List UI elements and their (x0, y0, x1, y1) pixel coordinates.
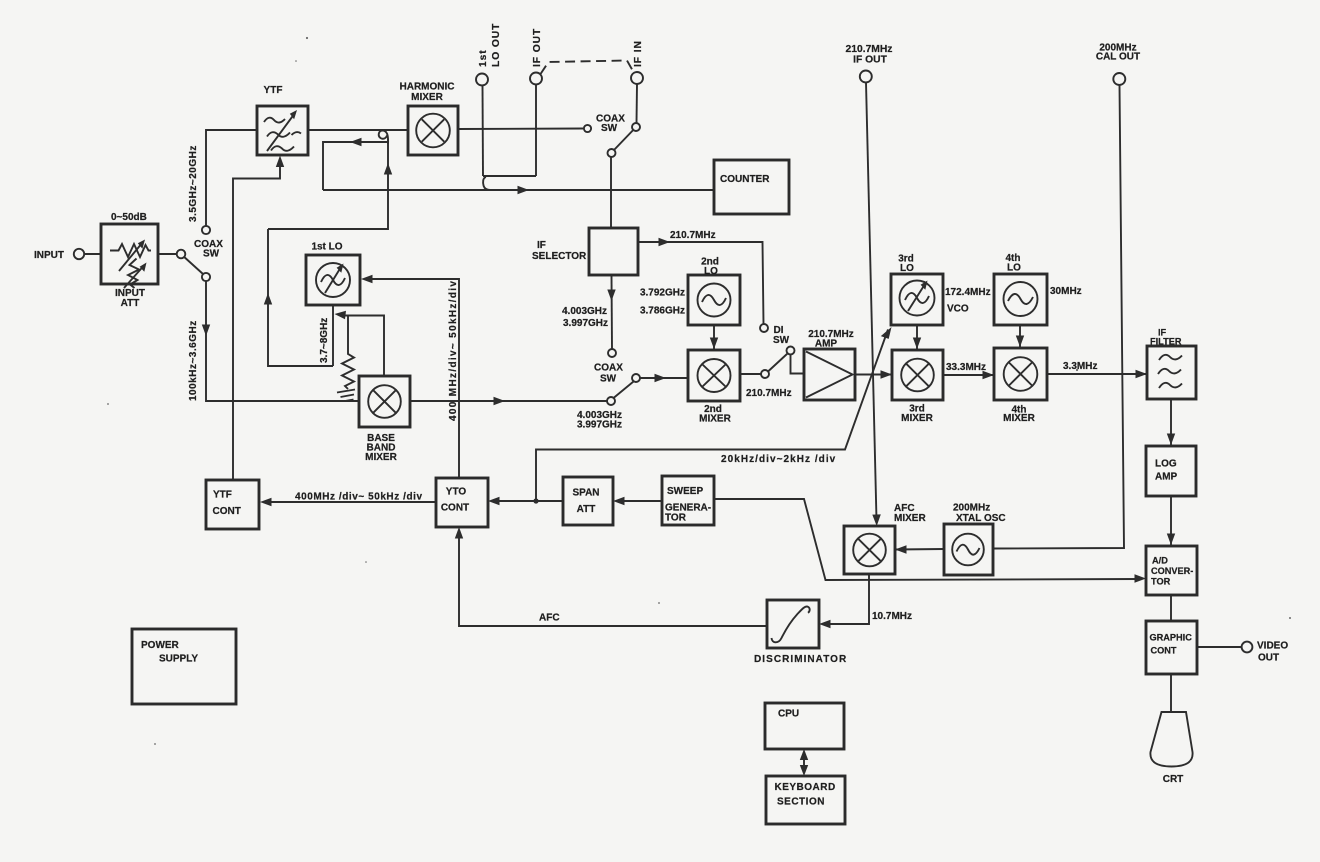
node DI SW arm circle (787, 347, 795, 355)
wire span att to YTO CONT (494, 500, 563, 502)
wire xtal osc to AFC mixer (895, 548, 944, 551)
svg-text:SW: SW (773, 335, 790, 346)
svg-text:CAL OUT: CAL OUT (1096, 52, 1140, 63)
wire input terminal to input att (85, 253, 102, 255)
block A/D CONVERTOR (1146, 546, 1197, 595)
svg-text:KEYBOARD: KEYBOARD (775, 782, 836, 793)
wire YTO CONT to YTF CONT (266, 501, 436, 503)
block LOG AMP (1146, 446, 1196, 496)
wire sweep generator right to A/D line (714, 499, 1140, 580)
svg-text:GRAPHIC: GRAPHIC (1150, 633, 1193, 643)
svg-text:3.786GHz: 3.786GHz (640, 306, 685, 317)
svg-text:SW: SW (203, 249, 220, 260)
svg-text:AMP: AMP (1155, 472, 1178, 483)
scan specks (noise) (107, 37, 1291, 745)
block YTO CONT (436, 478, 488, 527)
wire input att to coax switch (158, 253, 177, 255)
svg-text:10.7MHz: 10.7MHz (872, 611, 912, 622)
mixer 3rd MIXER (892, 350, 943, 400)
svg-text:210.7MHz: 210.7MHz (846, 44, 893, 55)
svg-text:ATT: ATT (577, 504, 596, 515)
arrow up on x268 leg (264, 293, 272, 305)
arrow 3rd LO into mixer (913, 338, 921, 350)
mixer BASE BAND MIXER (359, 376, 410, 427)
arrow right on baseband output (494, 397, 506, 405)
oscillator 200MHz XTAL OSC (944, 524, 993, 575)
arrow up into YTO CONT bottom (455, 527, 463, 539)
svg-text:LOG: LOG (1155, 459, 1177, 470)
wire 200MHz cal out lead (993, 85, 1124, 549)
oscillator 1st LO (306, 255, 360, 305)
node 200MHz CAL OUT terminal (1113, 73, 1125, 85)
node mid COAX SW upper circle (608, 349, 616, 357)
wire AFC mixer down to discriminator (825, 574, 869, 624)
svg-text:POWER: POWER (141, 640, 180, 651)
svg-text:MIXER: MIXER (901, 413, 933, 424)
node 1st LO OUT terminal (476, 74, 488, 86)
resistor termination on tap (342, 316, 354, 390)
oscillator 3rd LO VCO (891, 274, 943, 325)
svg-text:FILTER: FILTER (1150, 337, 1182, 347)
svg-text:SWEEP: SWEEP (667, 486, 703, 497)
svg-text:SUPPLY: SUPPLY (159, 654, 198, 665)
svg-text:100kHz~3.6GHz: 100kHz~3.6GHz (188, 320, 199, 401)
svg-text:SECTION: SECTION (777, 797, 825, 808)
node COAX SW right circle (632, 123, 640, 131)
svg-text:TOR: TOR (1151, 577, 1171, 587)
node COAX SW stub circle (top middle) (584, 125, 591, 132)
svg-text:LO: LO (900, 263, 914, 274)
wire 1st LO OUT terminal lead down (482, 86, 485, 177)
node VIDEO OUT terminal (1242, 642, 1253, 653)
mixer HARMONIC MIXER (408, 106, 458, 155)
svg-text:CONT: CONT (1151, 646, 1177, 656)
wire YTO tune line into 1st LO (367, 279, 459, 478)
svg-text:200MHz: 200MHz (953, 503, 990, 514)
arrow left into 1st LO right edge (361, 275, 373, 283)
arrow 4th LO into mixer (1016, 336, 1024, 348)
arrow into A/D left (1135, 574, 1147, 582)
svg-text:A/D: A/D (1152, 556, 1168, 566)
wire 100kHz~3.6GHz path down from lower throw to baseband line (206, 281, 359, 401)
svg-text:172.4MHz: 172.4MHz (945, 287, 991, 298)
wire IF IN terminal down to coax sw (636, 84, 639, 123)
node IF IN terminal (631, 72, 643, 84)
arrow into YTF CONT (260, 498, 272, 506)
wire vertical riser x388 from curl to y229 (268, 139, 388, 229)
svg-text:3.3MHz: 3.3MHz (1063, 361, 1097, 372)
svg-text:MIXER: MIXER (411, 92, 443, 103)
mixer AFC MIXER (844, 526, 895, 574)
input attenuator INPUT ATT (101, 224, 158, 288)
svg-text:IF: IF (537, 240, 546, 251)
wire mid switch to 2nd mixer (640, 377, 688, 379)
svg-text:30MHz: 30MHz (1050, 286, 1082, 297)
oscillator 4th LO (994, 274, 1047, 325)
wire 4th LO to 4th mixer (1019, 325, 1021, 348)
block KEYBOARD SECTION (766, 776, 845, 824)
svg-text:YTF: YTF (213, 490, 232, 501)
mixer 2nd MIXER (688, 350, 740, 401)
wire mid switch arm (614, 382, 634, 399)
node mid COAX SW lower circle (607, 397, 615, 405)
wire DI SW arm (768, 354, 788, 372)
svg-text:OUT: OUT (1258, 653, 1279, 664)
arrow 2nd LO into mixer (710, 338, 718, 350)
svg-text:MIXER: MIXER (365, 452, 397, 463)
wire discriminator AFC return to YTO CONT (459, 533, 767, 626)
arrow right on counter line (518, 186, 530, 194)
wire graphic cont to video out (1197, 646, 1242, 648)
arrow into 2nd mixer (655, 374, 667, 382)
svg-text:3.5GHz~20GHz: 3.5GHz~20GHz (188, 145, 199, 222)
svg-text:CONT: CONT (213, 506, 241, 517)
svg-text:CONVER-: CONVER- (1151, 566, 1193, 576)
arrow into 3rd LO corner (881, 327, 892, 339)
svg-text:SW: SW (600, 374, 617, 385)
svg-text:400MHz /div~ 50kHz /div: 400MHz /div~ 50kHz /div (295, 492, 422, 503)
junction dot on span att line (533, 498, 538, 503)
svg-text:20kHz/div~2kHz /div: 20kHz/div~2kHz /div (721, 454, 836, 465)
arrow into discriminator right (819, 620, 831, 628)
node IF selector throw circle (608, 149, 616, 157)
svg-text:YTO: YTO (446, 487, 467, 498)
node IF OUT terminal (530, 73, 542, 85)
filter YTF (257, 106, 308, 155)
arrow right on 210.7MHz line (659, 238, 671, 246)
wire coax switch arm to lower throw (184, 257, 203, 274)
discriminator block (767, 600, 819, 648)
wire YTF tune line from YTF CONT (233, 160, 280, 480)
arrow into log amp (1167, 434, 1175, 446)
wire switch arm coax sw to IF selector throw (614, 130, 633, 150)
arrow into IF filter (1136, 370, 1148, 378)
wire 2nd LO to 2nd mixer (713, 325, 715, 350)
svg-text:COAX: COAX (594, 363, 623, 374)
block SPAN ATT (563, 477, 613, 525)
arrow up into CPU (800, 749, 808, 760)
wire A/D to graphic cont (1170, 595, 1172, 621)
block POWER SUPPLY (132, 629, 236, 704)
node INPUT terminal (74, 249, 84, 259)
svg-text:LO: LO (704, 266, 718, 277)
svg-text:3.997GHz: 3.997GHz (563, 318, 608, 329)
node DI SW upper circle (760, 324, 768, 332)
svg-text:3.7~8GHz: 3.7~8GHz (319, 318, 330, 363)
svg-text:CPU: CPU (778, 709, 799, 720)
arrow up on riser x388 (384, 163, 392, 175)
wire amp output to 3rd mixer (855, 374, 892, 376)
wire log amp to A/D convertor (1170, 496, 1172, 546)
arrow down into AFC mixer top (872, 514, 881, 526)
svg-text:VCO: VCO (947, 304, 969, 315)
wire harmonic mixer output to coax sw stub (458, 128, 583, 131)
wire IF selector down output (611, 275, 614, 349)
svg-text:INPUT: INPUT (34, 250, 64, 261)
wire CPU keyboard double arrow (803, 753, 805, 772)
wire sweep diagonal to 3rd LO vco (536, 330, 888, 502)
wire DI SW arm down and into amp (791, 355, 805, 374)
wire sweep generator to span att (619, 500, 662, 502)
curl where riser meets harmonic mixer line (379, 131, 388, 145)
arrow into AFC mixer right (895, 545, 907, 553)
arrow down on IF selector output (607, 290, 615, 302)
svg-text:DISCRIMINATOR: DISCRIMINATOR (754, 654, 847, 665)
wire 3rd LO to 3rd mixer (916, 325, 918, 350)
mixer 4th MIXER (994, 348, 1047, 400)
wire YTF output to harmonic mixer (308, 129, 408, 131)
svg-text:MIXER: MIXER (894, 513, 926, 524)
svg-text:0~50dB: 0~50dB (111, 212, 147, 223)
svg-text:210.7MHz: 210.7MHz (746, 388, 792, 399)
svg-text:SW: SW (601, 123, 618, 134)
svg-text:AFC: AFC (539, 613, 560, 624)
block IF SELECTOR (589, 228, 638, 275)
arrow up into YTF bottom (276, 156, 284, 168)
oscillator 2nd LO (688, 275, 740, 325)
block SWEEP GENERATOR (662, 476, 714, 525)
svg-text:XTAL OSC: XTAL OSC (956, 513, 1006, 524)
svg-text:CONT: CONT (441, 503, 469, 514)
arrow left on loop top (350, 138, 362, 146)
svg-text:ATT: ATT (121, 298, 140, 309)
wire vertical x268 feedback leg (268, 229, 333, 366)
wire 3rd mixer to 4th mixer (943, 374, 994, 376)
svg-text:IF OUT: IF OUT (853, 55, 887, 66)
wire 2nd mixer output to DI SW common (740, 373, 761, 375)
svg-text:33.3MHz: 33.3MHz (946, 362, 986, 373)
wire IF selector 210.7MHz output to DI SW (638, 242, 764, 324)
wire dashed patch link IF OUT to IF IN (541, 61, 634, 75)
arrow into 4th mixer (983, 371, 995, 379)
wire down from throw to IF selector box (610, 157, 612, 228)
node COAX SW lower throw (202, 273, 210, 281)
svg-text:TOR: TOR (665, 513, 687, 524)
filter IF FILTER (1147, 346, 1196, 399)
node COAX SW common (after input att) (177, 250, 186, 259)
svg-text:3.792GHz: 3.792GHz (640, 288, 685, 299)
node 210.7MHz IF OUT terminal (860, 71, 872, 83)
svg-text:IF IN: IF IN (633, 40, 644, 67)
wire upper throw up and right to YTF input (206, 130, 257, 226)
arrow into 3rd mixer (881, 370, 893, 378)
svg-text:COUNTER: COUNTER (720, 174, 770, 185)
block YTF CONT (206, 480, 259, 529)
CRT funnel (1150, 712, 1192, 767)
svg-text:210.7MHz: 210.7MHz (670, 230, 716, 241)
wire IF filter to log amp (1170, 399, 1172, 446)
svg-text:1st LO: 1st LO (311, 242, 342, 253)
wire loop top edge with left arrow (323, 142, 388, 190)
svg-text:3.997GHz: 3.997GHz (577, 420, 622, 431)
node mid switch common circle (632, 374, 640, 382)
wire IF OUT terminal lead down (535, 85, 537, 177)
svg-text:4.003GHz: 4.003GHz (562, 306, 607, 317)
svg-text:AMP: AMP (815, 339, 838, 350)
svg-text:CRT: CRT (1163, 774, 1184, 785)
svg-text:400 MHz/div~ 50kHz/div: 400 MHz/div~ 50kHz/div (448, 281, 459, 421)
svg-text:SELECTOR: SELECTOR (532, 251, 587, 262)
svg-text:1st: 1st (478, 49, 489, 67)
block COUNTER (714, 160, 789, 214)
svg-text:LO OUT: LO OUT (491, 23, 502, 67)
node DI SW common circle (761, 370, 769, 378)
ground symbol (337, 390, 355, 402)
svg-text:SPAN: SPAN (572, 488, 599, 499)
wire 4th mixer to IF filter (1047, 373, 1147, 375)
wire jog from tie bar to counter line (483, 177, 490, 190)
svg-text:MIXER: MIXER (1003, 413, 1035, 424)
arrow down on 100kHz line (202, 325, 210, 337)
wire graphic cont to CRT (1170, 674, 1172, 712)
svg-text:HARMONIC: HARMONIC (400, 82, 455, 93)
arrow left on tap toward 1st LO lead (335, 311, 347, 319)
amplifier 210.7MHz AMP (804, 349, 855, 400)
node COAX SW upper throw (202, 226, 210, 234)
svg-text:YTF: YTF (264, 85, 283, 96)
wire 1st LO bottom lead (332, 305, 334, 366)
block CPU (765, 703, 844, 749)
svg-text:MIXER: MIXER (699, 414, 731, 425)
svg-text:VIDEO: VIDEO (1257, 641, 1288, 652)
wire 210.7MHz IF OUT long lead down to AFC mixer (866, 83, 877, 521)
svg-text:LO: LO (1007, 263, 1021, 274)
wire tie bar between terminal leads (483, 175, 536, 177)
wire counter feed line (323, 189, 714, 191)
arrow down into keyboard section (800, 765, 808, 776)
wire 1st LO tap to baseband mixer LO port (340, 316, 384, 377)
svg-text:IF OUT: IF OUT (532, 28, 543, 67)
arrow into YTO CONT right (488, 497, 500, 505)
arrow into span att (613, 497, 625, 505)
arrow into A/D convertor (1167, 534, 1175, 546)
wire baseband mixer output to coax sw (410, 400, 607, 402)
block GRAPHIC CONT (1146, 621, 1197, 674)
